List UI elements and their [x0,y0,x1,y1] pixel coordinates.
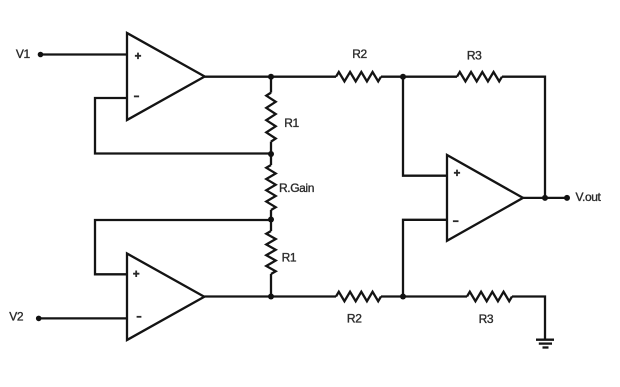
svg-text:R3: R3 [467,49,482,63]
svg-text:V2: V2 [9,309,24,323]
svg-text:R1: R1 [284,116,299,130]
svg-text:R2: R2 [347,312,362,326]
svg-text:R3: R3 [479,312,494,326]
svg-text:R.Gain: R.Gain [279,181,314,195]
svg-text:R1: R1 [282,251,297,265]
svg-text:R2: R2 [352,47,367,61]
svg-text:V1: V1 [16,47,31,61]
svg-text:V.out: V.out [576,190,602,204]
